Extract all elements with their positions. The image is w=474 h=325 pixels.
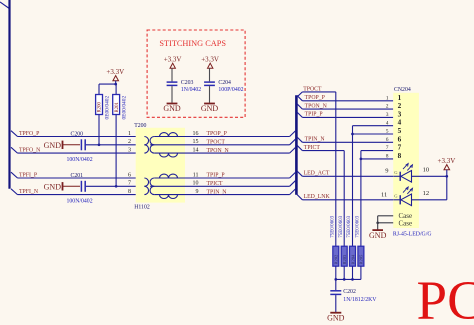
- svg-text:75E0/0603: 75E0/0603: [339, 215, 344, 237]
- svg-text:GND: GND: [201, 104, 219, 113]
- svg-text:R202: R202: [334, 255, 339, 265]
- wire GND to C201: [63, 185, 81, 187]
- svg-text:8: 8: [398, 152, 402, 160]
- svg-text:TPOCT: TPOCT: [207, 140, 226, 146]
- svg-text:TPFO_N: TPFO_N: [19, 148, 41, 154]
- wire C202 to GND: [335, 295, 337, 312]
- capacitor C202: [330, 290, 341, 292]
- svg-text:TPFO_P: TPFO_P: [19, 131, 39, 137]
- svg-text:TPOP_P: TPOP_P: [305, 95, 325, 101]
- wire R202 lead: [335, 266, 337, 279]
- node rail junctions: [334, 278, 337, 281]
- dashed box STITCHING CAPS: [147, 30, 245, 117]
- winding coil top humps: [160, 133, 178, 137]
- svg-text:R201: R201: [115, 102, 120, 113]
- wire TPFO_P: [18, 136, 145, 138]
- bus entry and wire TPIN_N to pin6: [297, 137, 303, 142]
- svg-text:TPIN_N: TPIN_N: [207, 189, 228, 195]
- resistor R205: [358, 246, 364, 266]
- svg-text:TPOCT: TPOCT: [303, 86, 322, 92]
- node pin10 junction: [445, 175, 448, 178]
- ground bar at C201: [62, 182, 64, 190]
- svg-text:TPON_N: TPON_N: [305, 103, 328, 109]
- wire TPICT column to R203: [343, 151, 345, 247]
- capacitor C201: [80, 181, 82, 192]
- winding coil bracket lower: [150, 186, 154, 194]
- svg-text:R205: R205: [359, 254, 364, 265]
- resistor R200: [98, 84, 100, 94]
- svg-text:9: 9: [385, 167, 388, 174]
- capacitor C204: [204, 81, 215, 83]
- LED symbol: [399, 172, 401, 181]
- svg-text:0E00/0402: 0E00/0402: [121, 96, 127, 120]
- svg-text:8: 8: [128, 189, 131, 195]
- capacitor C200: [80, 139, 82, 150]
- wire center tap row: [150, 144, 289, 146]
- winding coil top humps: [160, 174, 178, 178]
- wire pin4 column to R204: [352, 126, 354, 247]
- wire pin8 to CN204: [361, 158, 393, 160]
- svg-text:3: 3: [398, 110, 402, 118]
- wire pin10 to +3.3V: [412, 175, 447, 177]
- wire +3.3V to C204: [209, 68, 211, 81]
- node Case junction: [376, 221, 379, 224]
- svg-text:11: 11: [193, 172, 199, 178]
- ground at C204: [204, 103, 215, 105]
- bus entries left side: [290, 131, 296, 137]
- svg-text:1: 1: [398, 94, 402, 102]
- svg-text:TPON_N: TPON_N: [207, 148, 230, 154]
- svg-text:9: 9: [196, 189, 199, 195]
- svg-text:7: 7: [386, 145, 389, 151]
- svg-text:GND: GND: [369, 231, 387, 240]
- svg-text:100P/0402: 100P/0402: [218, 87, 243, 93]
- svg-text:1N/0402: 1N/0402: [181, 87, 201, 93]
- bus entry TPFI_P: [11, 172, 18, 178]
- transformer T200 body: [136, 128, 185, 203]
- svg-text:100N/0402: 100N/0402: [67, 198, 93, 204]
- bus entry and wire TPICT to R203 column: [297, 145, 303, 150]
- resistor R201: [115, 84, 117, 94]
- svg-text:R200: R200: [98, 102, 103, 113]
- node C200/R200 junction: [98, 143, 101, 146]
- svg-text:75E0/0603: 75E0/0603: [356, 215, 361, 237]
- bus entry TPOCT: [297, 92, 303, 97]
- wire R203 lead: [343, 266, 345, 279]
- wire C201 to T200 pin7: [86, 185, 144, 187]
- svg-text:10: 10: [423, 166, 430, 173]
- ground at C203: [167, 103, 178, 105]
- svg-text:GND: GND: [163, 104, 181, 113]
- bus entry TPFI_N: [11, 189, 18, 195]
- wire pin12: [412, 199, 447, 201]
- wire GND to C200: [63, 144, 81, 146]
- bus entry and wire TPIP_P to pin3: [297, 112, 303, 117]
- wire TPFI_P: [18, 177, 145, 179]
- bus entry and wire LED_LNK to pin11: [297, 194, 303, 199]
- ground bar at C200: [62, 141, 64, 149]
- svg-text:TPFI_N: TPFI_N: [19, 189, 39, 195]
- bus entry and wire LED_ACT to pin9: [297, 171, 303, 176]
- bus entry and wire TPOP_P to pin1: [297, 95, 303, 100]
- wire TPFI_N: [18, 194, 145, 196]
- svg-text:TPIN_N: TPIN_N: [305, 137, 326, 143]
- wire termination rail: [336, 278, 361, 280]
- svg-text:STITCHING CAPS: STITCHING CAPS: [159, 39, 226, 48]
- wire pin5 to CN204: [353, 133, 394, 135]
- svg-text:GND: GND: [44, 183, 62, 192]
- wire R204 lead: [352, 266, 354, 279]
- winding coil bottom humps: [160, 153, 178, 157]
- wire TPOCT to R202 column: [302, 91, 335, 93]
- winding hairpin left upper: [144, 137, 148, 145]
- svg-text:6: 6: [386, 137, 389, 143]
- winding coil bracket upper: [150, 137, 154, 145]
- winding hairpin left upper: [144, 178, 148, 186]
- resistor R202: [333, 246, 339, 266]
- svg-text:2: 2: [386, 104, 389, 110]
- wire +3.3V to C203: [171, 68, 173, 81]
- svg-text:R204: R204: [350, 254, 355, 265]
- svg-text:+3.3V: +3.3V: [438, 157, 456, 165]
- wire coil bottom row: [154, 194, 289, 196]
- wire +3.3V rail: [99, 83, 116, 85]
- bus left vertical: [8, 0, 10, 189]
- svg-text:7: 7: [398, 144, 402, 152]
- wire +3.3V down link: [446, 176, 448, 200]
- wire R205 lead: [360, 266, 362, 279]
- wire off-page stub top-left: [0, 2, 9, 9]
- svg-text:10: 10: [193, 181, 199, 187]
- wire R200 to C200 node: [98, 115, 100, 145]
- svg-text:TPIP_P: TPIP_P: [305, 112, 323, 118]
- svg-text:C200: C200: [71, 131, 84, 137]
- bus entry TPFO_P: [11, 131, 18, 137]
- svg-text:5: 5: [398, 127, 402, 135]
- svg-text:TPICT: TPICT: [207, 181, 224, 187]
- wire pin4 to CN204: [353, 125, 394, 127]
- svg-text:2: 2: [128, 139, 131, 145]
- svg-text:C202: C202: [343, 289, 356, 295]
- svg-text:GND: GND: [44, 141, 62, 150]
- wire pin7 column to R205: [360, 151, 362, 247]
- wire center tap row: [150, 185, 289, 187]
- capacitor C203: [167, 81, 178, 83]
- svg-text:6: 6: [128, 172, 131, 178]
- svg-text:4: 4: [398, 119, 402, 127]
- wire pin7 to CN204: [361, 150, 393, 152]
- resistor R203: [341, 246, 347, 266]
- svg-text:16: 16: [193, 131, 199, 137]
- node pin5 junction: [351, 133, 354, 136]
- svg-text:GND: GND: [327, 313, 345, 322]
- svg-text:1: 1: [128, 131, 131, 137]
- wire rail to C202: [335, 279, 337, 290]
- ground at C202: [330, 312, 341, 314]
- svg-text:RJ-45-LED/G/G: RJ-45-LED/G/G: [393, 232, 432, 238]
- wire C204 to GND: [209, 86, 211, 103]
- svg-text:T200: T200: [134, 123, 146, 129]
- svg-text:C201: C201: [71, 173, 84, 179]
- winding hairpin left lower: [144, 186, 148, 194]
- wire C203 to GND: [171, 86, 173, 103]
- svg-text:TPIP_P: TPIP_P: [207, 173, 225, 179]
- winding coil bottom humps: [160, 195, 178, 199]
- connector CN204 body: [393, 93, 419, 228]
- wire C200 to T200 pin2: [86, 144, 144, 146]
- node pin8 junction: [360, 158, 363, 161]
- svg-text:8: 8: [386, 154, 389, 160]
- svg-text:C203: C203: [181, 80, 194, 86]
- bus entry and wire TPON_N to pin2: [297, 104, 303, 109]
- ground at Case: [372, 229, 383, 231]
- svg-text:75E0/0603: 75E0/0603: [330, 215, 335, 237]
- winding coil bracket lower: [150, 145, 154, 153]
- wire R201 to C201 node: [115, 115, 117, 187]
- LED symbol: [399, 195, 401, 204]
- svg-text:LED_LNK: LED_LNK: [304, 194, 331, 200]
- svg-text:PC: PC: [417, 270, 474, 325]
- wire coil bottom row: [154, 152, 289, 154]
- winding coil bracket upper: [150, 178, 154, 186]
- svg-text:TPOP_P: TPOP_P: [207, 131, 227, 137]
- svg-text:1N/1812/2KV: 1N/1812/2KV: [343, 297, 377, 303]
- wire coil top row: [154, 177, 289, 179]
- wire TPFO_N: [18, 152, 145, 154]
- svg-text:H1102: H1102: [134, 205, 150, 211]
- svg-text:6: 6: [398, 135, 402, 143]
- node C201/R201 junction: [115, 185, 118, 188]
- wire LED cathode: [393, 175, 400, 177]
- node +3.3V junction: [114, 83, 117, 86]
- svg-text:12: 12: [423, 190, 430, 197]
- svg-text:75E0/0603: 75E0/0603: [347, 215, 352, 237]
- svg-text:5: 5: [386, 129, 389, 135]
- wire TPOCT column to R202: [335, 92, 337, 246]
- winding hairpin left lower: [144, 145, 148, 153]
- svg-text:100N/0402: 100N/0402: [67, 157, 93, 163]
- svg-text:15: 15: [193, 139, 199, 145]
- svg-text:11: 11: [381, 192, 387, 199]
- svg-text:4: 4: [386, 120, 389, 126]
- svg-text:3: 3: [386, 112, 389, 118]
- wire LED cathode: [393, 199, 400, 201]
- wire coil top row: [154, 136, 289, 138]
- svg-text:7: 7: [128, 181, 131, 187]
- svg-text:Case: Case: [399, 219, 413, 227]
- svg-text:3: 3: [128, 148, 131, 154]
- svg-text:14: 14: [193, 148, 199, 154]
- bus right vertical: [295, 95, 298, 195]
- svg-text:TPICT: TPICT: [304, 145, 321, 151]
- svg-text:TPFI_P: TPFI_P: [19, 173, 37, 179]
- svg-text:C204: C204: [218, 80, 231, 86]
- wire Case lower: [378, 222, 394, 224]
- wire Case vertical: [377, 216, 379, 230]
- svg-text:LED_ACT: LED_ACT: [304, 170, 330, 176]
- svg-text:CN204: CN204: [394, 87, 411, 93]
- svg-text:2: 2: [398, 102, 402, 110]
- svg-text:1: 1: [386, 95, 389, 101]
- svg-text:+3.3V: +3.3V: [106, 68, 124, 76]
- resistor R204: [350, 246, 356, 266]
- svg-text:0E00/0402: 0E00/0402: [104, 96, 110, 120]
- svg-text:R203: R203: [342, 254, 347, 265]
- bus entry TPFO_N: [11, 147, 18, 153]
- wire Case upper: [378, 215, 394, 217]
